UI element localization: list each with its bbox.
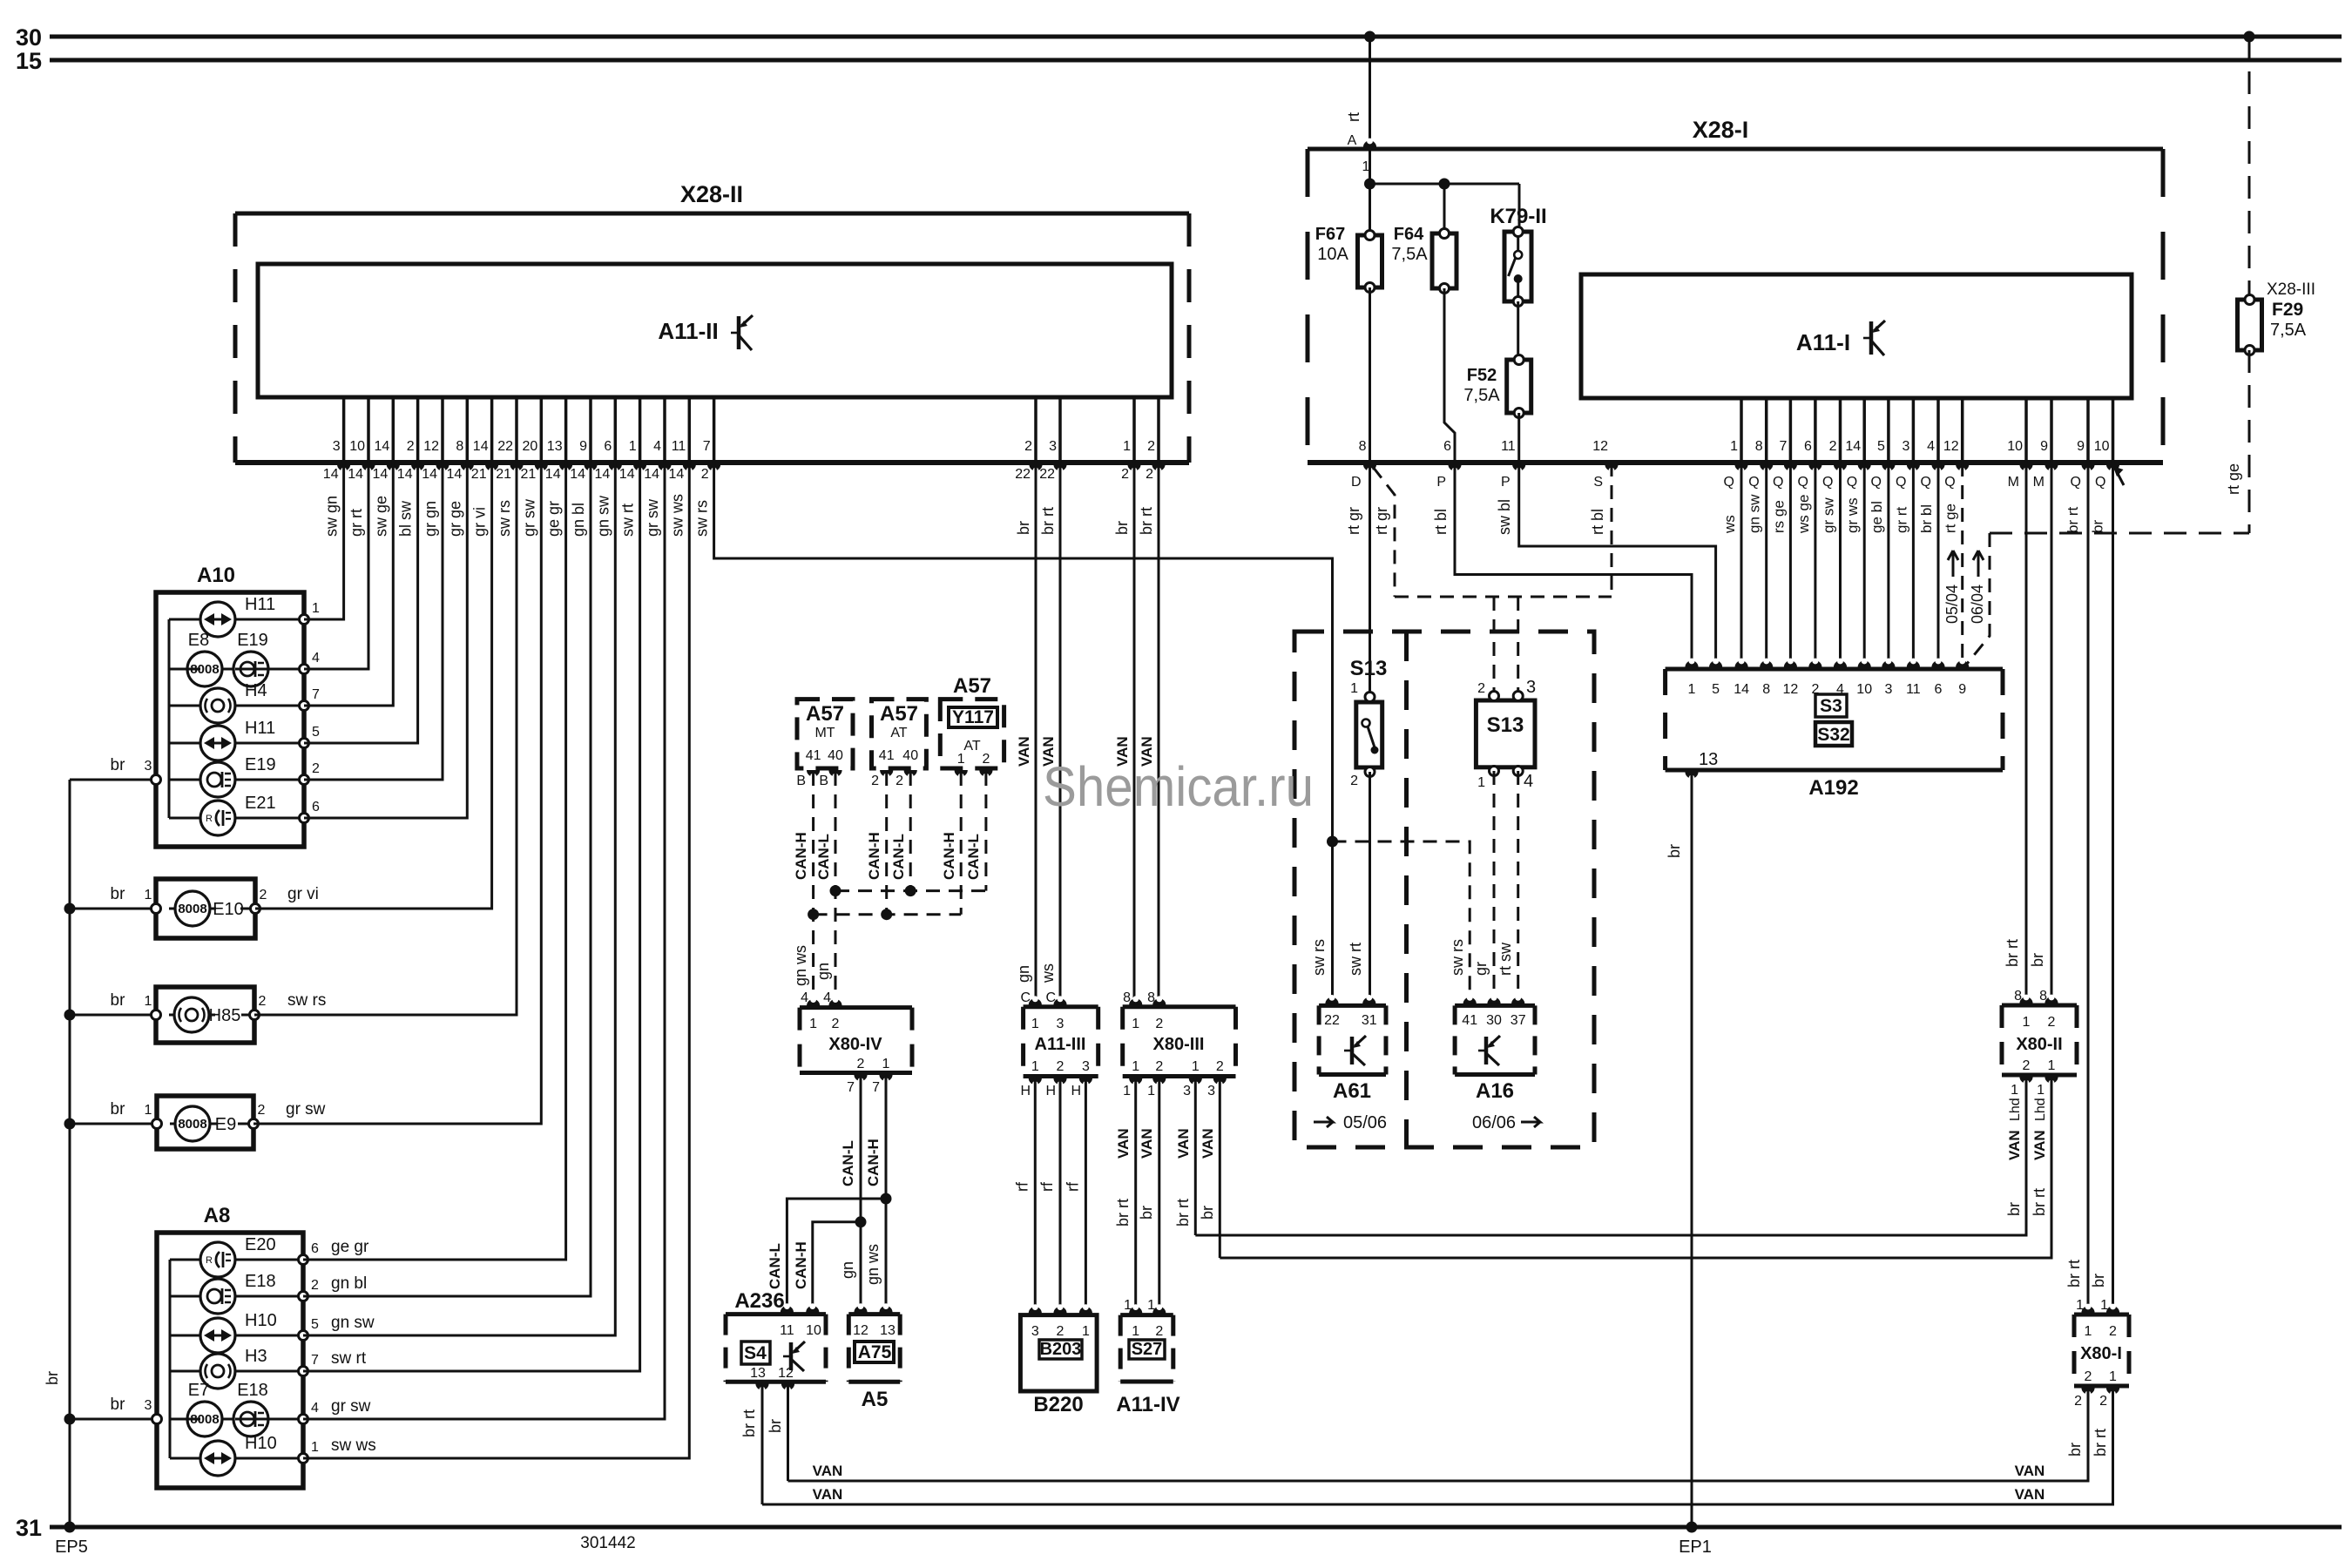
svg-text:br: br bbox=[44, 1371, 61, 1385]
svg-text:A5: A5 bbox=[862, 1388, 889, 1411]
wire F64 to pin 6 bbox=[1444, 288, 1455, 463]
svg-text:A11-III: A11-III bbox=[1035, 1035, 1086, 1054]
svg-text:VAN: VAN bbox=[1016, 736, 1032, 767]
svg-text:3: 3 bbox=[1049, 439, 1057, 454]
svg-text:3: 3 bbox=[145, 1398, 152, 1413]
svg-text:Q: Q bbox=[1870, 475, 1881, 490]
wire bl sw bbox=[304, 463, 418, 743]
pin 11 of A11-II bbox=[688, 397, 692, 463]
svg-text:40: 40 bbox=[902, 748, 918, 763]
svg-text:12: 12 bbox=[853, 1323, 868, 1338]
module A5 bbox=[848, 1312, 900, 1316]
svg-text:br rt: br rt bbox=[1138, 507, 1155, 535]
switch label S32 bbox=[1815, 722, 1852, 746]
pin 3 of A11-II bbox=[342, 397, 346, 463]
svg-text:CAN-L: CAN-L bbox=[890, 834, 907, 880]
wire br rt Q to X80-I bbox=[2087, 463, 2090, 1311]
pin 12/Q of X28-I bbox=[1961, 398, 1964, 463]
svg-text:2: 2 bbox=[871, 774, 879, 788]
wire rt ge F29 down bbox=[2248, 350, 2251, 533]
wire rt ge 06/04 dashed bbox=[1967, 533, 1990, 664]
svg-text:P: P bbox=[1501, 475, 1511, 490]
svg-text:2: 2 bbox=[1024, 439, 1032, 454]
svg-text:2: 2 bbox=[1216, 1059, 1224, 1074]
wire rt ge horizontal bbox=[1990, 532, 2249, 535]
pin 10/M of X28-I bbox=[2024, 398, 2028, 463]
svg-text:C: C bbox=[1045, 990, 1056, 1005]
wire br rt A236 to VAN bbox=[761, 1382, 764, 1504]
wire br rail bbox=[69, 780, 71, 1527]
svg-text:14: 14 bbox=[473, 439, 489, 454]
wire gn ws X80-IV to A5 pin 13 bbox=[885, 1073, 888, 1312]
svg-text:1: 1 bbox=[1123, 439, 1131, 454]
svg-text:2: 2 bbox=[311, 1278, 319, 1293]
svg-text:1: 1 bbox=[1730, 439, 1738, 454]
svg-text:VAN: VAN bbox=[2031, 1130, 2048, 1160]
wire rt sw S13 to A16 bbox=[1517, 771, 1519, 1002]
pin 3 of A192 bbox=[1882, 660, 1895, 667]
svg-text:14: 14 bbox=[397, 467, 413, 482]
wire VAN Lhd 1 bbox=[1195, 1075, 2026, 1235]
svg-text:CAN-L: CAN-L bbox=[767, 1243, 783, 1289]
svg-text:41: 41 bbox=[1462, 1013, 1477, 1028]
wire gr sw bbox=[303, 463, 665, 1419]
svg-text:8: 8 bbox=[1755, 439, 1763, 454]
svg-text:14: 14 bbox=[348, 467, 363, 482]
svg-text:7: 7 bbox=[312, 687, 320, 702]
svg-text:EP1: EP1 bbox=[1679, 1538, 1712, 1557]
svg-text:E21: E21 bbox=[245, 794, 276, 813]
node rail-E9 bbox=[64, 1119, 76, 1130]
svg-text:1: 1 bbox=[2076, 1298, 2084, 1313]
svg-text:S32: S32 bbox=[1817, 725, 1849, 745]
wire br rt to X80-III pin 2 bbox=[1158, 463, 1160, 1002]
svg-text:gr sw: gr sw bbox=[644, 498, 661, 537]
wire br to E9 pin 1 bbox=[70, 1123, 157, 1125]
svg-text:Q: Q bbox=[1944, 475, 1955, 490]
svg-text:12: 12 bbox=[423, 439, 439, 454]
control unit A61 bbox=[1319, 1004, 1386, 1008]
svg-text:31: 31 bbox=[1362, 1013, 1377, 1028]
svg-text:2: 2 bbox=[1121, 467, 1129, 482]
svg-text:H11: H11 bbox=[245, 719, 275, 738]
svg-text:F29: F29 bbox=[2272, 300, 2303, 320]
svg-text:5: 5 bbox=[311, 1317, 319, 1332]
pin 10 of A192 bbox=[1858, 660, 1871, 667]
lamp E10 bbox=[156, 879, 255, 938]
svg-text:Q: Q bbox=[1773, 475, 1783, 490]
svg-text:VAN: VAN bbox=[813, 1463, 843, 1479]
svg-text:E19: E19 bbox=[245, 755, 276, 774]
switch label S3 bbox=[1815, 694, 1847, 717]
svg-text:1: 1 bbox=[145, 994, 152, 1009]
svg-text:Q: Q bbox=[2095, 475, 2105, 490]
svg-text:H: H bbox=[1071, 1084, 1081, 1098]
svg-text:sw rs: sw rs bbox=[496, 500, 513, 537]
wire rf 1 to B203 bbox=[1034, 1077, 1037, 1313]
svg-text:2: 2 bbox=[2074, 1394, 2082, 1409]
svg-text:MT: MT bbox=[814, 726, 835, 740]
svg-text:gr sw: gr sw bbox=[331, 1397, 371, 1416]
svg-text:Y117: Y117 bbox=[952, 707, 994, 727]
svg-text:gr vi: gr vi bbox=[287, 885, 319, 903]
svg-text:gn sw: gn sw bbox=[1747, 494, 1763, 533]
connector A11-III bbox=[1024, 1004, 1098, 1009]
svg-text:br: br bbox=[111, 991, 126, 1010]
lamp H85 bbox=[156, 987, 254, 1043]
wire gr rt bbox=[304, 463, 368, 669]
pin 1 of A192 bbox=[1685, 660, 1698, 667]
wire F67 to pin 8 bbox=[1369, 287, 1371, 463]
svg-text:X80-I: X80-I bbox=[2080, 1344, 2122, 1363]
svg-text:br bl: br bl bbox=[1918, 504, 1935, 533]
svg-text:1: 1 bbox=[957, 752, 965, 767]
wire K79-II to F52 bbox=[1517, 301, 1519, 360]
svg-text:5: 5 bbox=[1712, 682, 1720, 697]
svg-text:rt ge: rt ge bbox=[2225, 463, 2242, 495]
wire F52 to pin 11 bbox=[1517, 413, 1520, 463]
CAN-L bus dashed bbox=[835, 889, 986, 892]
svg-text:br: br bbox=[1015, 521, 1032, 535]
svg-text:1: 1 bbox=[1192, 1059, 1200, 1074]
svg-text:8: 8 bbox=[1359, 439, 1367, 454]
svg-text:CAN-H: CAN-H bbox=[793, 1241, 809, 1289]
svg-text:X80-IV: X80-IV bbox=[828, 1035, 882, 1054]
svg-text:1: 1 bbox=[2085, 1324, 2092, 1339]
svg-text:8: 8 bbox=[1123, 990, 1131, 1005]
svg-text:10: 10 bbox=[2007, 439, 2023, 454]
svg-text:X28-III: X28-III bbox=[2267, 280, 2315, 299]
wire VAN lower 2 bbox=[762, 1386, 2113, 1504]
wire rt gr dashed net bbox=[1373, 467, 1395, 597]
svg-text:11: 11 bbox=[780, 1323, 794, 1338]
node rail-A8 bbox=[64, 1414, 76, 1425]
svg-text:Q: Q bbox=[1896, 475, 1906, 490]
svg-text:3: 3 bbox=[1082, 1059, 1090, 1074]
wire sw rs to A61/A16 net bbox=[714, 463, 1333, 1002]
svg-text:F67: F67 bbox=[1315, 225, 1345, 244]
module A11-I bbox=[1581, 274, 2132, 398]
svg-text:7: 7 bbox=[703, 439, 711, 454]
svg-text:CAN-H: CAN-H bbox=[941, 832, 957, 880]
svg-text:A236: A236 bbox=[734, 1289, 784, 1313]
wire ws ge to A192 bbox=[1814, 463, 1816, 669]
svg-text:2: 2 bbox=[260, 888, 267, 902]
svg-text:8008: 8008 bbox=[190, 662, 219, 677]
svg-text:2: 2 bbox=[407, 439, 415, 454]
svg-text:12: 12 bbox=[1943, 439, 1959, 454]
svg-text:sw rt: sw rt bbox=[619, 504, 637, 537]
svg-text:br: br bbox=[2005, 1202, 2023, 1216]
svg-text:br: br bbox=[1666, 844, 1683, 858]
wire sw gn bbox=[304, 463, 344, 619]
connector X28-II dashed frame bbox=[233, 213, 238, 463]
svg-text:12: 12 bbox=[778, 1366, 794, 1381]
svg-text:7: 7 bbox=[872, 1080, 880, 1095]
svg-text:br rt: br rt bbox=[2065, 507, 2081, 534]
svg-text:1: 1 bbox=[1123, 1084, 1131, 1098]
svg-text:VAN: VAN bbox=[2006, 1130, 2023, 1160]
ground EP1 bbox=[1686, 1522, 1698, 1533]
svg-text:8: 8 bbox=[1762, 682, 1770, 697]
svg-text:12: 12 bbox=[1783, 682, 1799, 697]
CAN-H bus dashed bbox=[814, 913, 962, 916]
pin 14 of A192 bbox=[1735, 660, 1748, 667]
wire gr vi bbox=[255, 463, 492, 909]
svg-text:11: 11 bbox=[672, 439, 686, 454]
svg-text:14: 14 bbox=[323, 467, 339, 482]
svg-text:A11-II: A11-II bbox=[658, 318, 718, 344]
svg-text:X28-I: X28-I bbox=[1693, 117, 1749, 143]
connector X80-IV bbox=[800, 1005, 912, 1010]
svg-text:3: 3 bbox=[1183, 1084, 1191, 1098]
svg-text:1: 1 bbox=[809, 1017, 817, 1031]
svg-text:31: 31 bbox=[16, 1515, 42, 1541]
svg-text:H3: H3 bbox=[245, 1347, 267, 1366]
svg-text:gn bl: gn bl bbox=[570, 503, 587, 537]
wire dashed to S13 pin 2 bbox=[1493, 597, 1496, 691]
lamp E18 in A8 bbox=[170, 1295, 200, 1298]
svg-text:br: br bbox=[111, 1100, 126, 1119]
svg-text:2: 2 bbox=[1155, 1059, 1163, 1074]
svg-text:br: br bbox=[111, 885, 126, 903]
pin 12 of A192 bbox=[1784, 660, 1797, 667]
svg-text:gn ws: gn ws bbox=[864, 1244, 882, 1285]
svg-text:6: 6 bbox=[604, 439, 612, 454]
connector X80-I bbox=[2074, 1313, 2129, 1317]
wire rf 2 to B203 bbox=[1059, 1077, 1062, 1313]
svg-text:br rt: br rt bbox=[1039, 507, 1057, 535]
svg-text:22: 22 bbox=[1039, 467, 1055, 482]
svg-text:sw gn: sw gn bbox=[323, 496, 341, 537]
svg-text:7: 7 bbox=[847, 1080, 855, 1095]
svg-text:2: 2 bbox=[2085, 1369, 2092, 1384]
svg-text:7: 7 bbox=[1779, 439, 1787, 454]
wire gr ws to A192 bbox=[1863, 463, 1866, 669]
svg-text:VAN: VAN bbox=[2015, 1463, 2045, 1479]
node CAN-H tap bbox=[881, 1193, 892, 1205]
svg-text:R: R bbox=[206, 814, 213, 824]
pin 13 of A11-II bbox=[564, 397, 568, 463]
svg-text:8: 8 bbox=[456, 439, 463, 454]
svg-text:br: br bbox=[2090, 520, 2106, 533]
wire br to X80-III pin 1 bbox=[1133, 463, 1136, 1002]
svg-text:1: 1 bbox=[2011, 1083, 2018, 1098]
svg-text:1: 1 bbox=[1147, 1084, 1155, 1098]
svg-text:1: 1 bbox=[1132, 1017, 1139, 1031]
pin 9 of A192 bbox=[1956, 660, 1969, 667]
svg-text:14: 14 bbox=[570, 467, 585, 482]
svg-text:S13: S13 bbox=[1350, 657, 1388, 680]
pin 5 of A192 bbox=[1709, 660, 1722, 667]
svg-text:40: 40 bbox=[828, 748, 843, 763]
wire sw rt S13 to A61 bbox=[1369, 772, 1371, 1002]
pin 4 of A11-II bbox=[663, 397, 666, 463]
wire rt gr to S13 pin 1 bbox=[1369, 463, 1371, 694]
svg-text:B220: B220 bbox=[1033, 1393, 1083, 1416]
svg-text:1: 1 bbox=[145, 1103, 152, 1118]
svg-text:CAN-H: CAN-H bbox=[866, 832, 882, 880]
svg-text:A57: A57 bbox=[806, 702, 844, 726]
pin 8 of A192 bbox=[1760, 660, 1773, 667]
svg-text:H: H bbox=[1020, 1084, 1031, 1098]
svg-text:2: 2 bbox=[2048, 1015, 2056, 1030]
svg-text:8: 8 bbox=[1147, 990, 1155, 1005]
svg-text:Shemicar.ru: Shemicar.ru bbox=[1043, 755, 1314, 818]
svg-text:8008: 8008 bbox=[190, 1412, 219, 1427]
node fuse branch 1 bbox=[1364, 179, 1375, 190]
wire CAN-L from A236 pin 11 bbox=[787, 1199, 886, 1311]
svg-text:2: 2 bbox=[1155, 1017, 1163, 1031]
svg-text:A11-IV: A11-IV bbox=[1116, 1393, 1179, 1416]
pin 14/Q of X28-I bbox=[1862, 398, 1866, 463]
bus 31 bbox=[50, 1525, 2342, 1530]
svg-text:gn: gn bbox=[1015, 965, 1032, 983]
svg-text:7,5A: 7,5A bbox=[1463, 386, 1500, 405]
wire gr S13 to A16 bbox=[1493, 771, 1496, 1002]
svg-text:gr ws: gr ws bbox=[1844, 497, 1861, 533]
pin 1 of A11-II (right) bbox=[1132, 397, 1136, 463]
wire CAN-H from A236 pin 10 bbox=[813, 1222, 861, 1311]
svg-text:X80-III: X80-III bbox=[1153, 1035, 1205, 1054]
svg-text:2: 2 bbox=[857, 1057, 865, 1071]
svg-text:rt sw: rt sw bbox=[1497, 942, 1514, 976]
svg-text:gn ws: gn ws bbox=[792, 945, 809, 986]
svg-text:M: M bbox=[2033, 475, 2044, 490]
svg-text:1: 1 bbox=[145, 888, 152, 902]
wire to fuses bbox=[1369, 149, 1371, 235]
wire sw ws bbox=[303, 463, 689, 1458]
ground EP5 bbox=[64, 1522, 76, 1533]
svg-text:ws: ws bbox=[1721, 515, 1738, 534]
svg-text:F64: F64 bbox=[1394, 225, 1424, 244]
instrument module A11-II bbox=[258, 264, 1172, 397]
svg-text:E10: E10 bbox=[213, 900, 244, 919]
svg-text:7,5A: 7,5A bbox=[2270, 321, 2307, 340]
bus 15 bbox=[50, 58, 2342, 63]
svg-text:H10: H10 bbox=[245, 1434, 277, 1453]
wire ws to A192 bbox=[1740, 463, 1743, 669]
pin 2/Q of X28-I bbox=[1839, 398, 1842, 463]
svg-text:S13: S13 bbox=[1487, 713, 1524, 737]
svg-text:1: 1 bbox=[1688, 682, 1696, 697]
svg-text:A10: A10 bbox=[197, 564, 235, 587]
svg-text:1: 1 bbox=[629, 439, 637, 454]
node rail-H85 bbox=[64, 1010, 76, 1021]
svg-text:2: 2 bbox=[1829, 439, 1837, 454]
svg-text:br rt: br rt bbox=[2092, 1429, 2109, 1456]
wire br bl to A192 bbox=[1937, 463, 1940, 669]
lamp E19 in A10 bbox=[169, 779, 200, 781]
wire rt bl dashed from pin S bbox=[1611, 463, 1613, 597]
wire br to H85 pin 1 bbox=[70, 1014, 156, 1017]
svg-text:gn sw: gn sw bbox=[331, 1314, 375, 1332]
svg-text:6: 6 bbox=[312, 800, 320, 814]
svg-text:gr rt: gr rt bbox=[348, 509, 365, 537]
pin 3 of A11-II (right) bbox=[1058, 397, 1062, 463]
lamp H10 in A8 bbox=[170, 1457, 200, 1460]
svg-text:13: 13 bbox=[1699, 750, 1718, 769]
svg-text:2: 2 bbox=[1477, 681, 1485, 696]
wire br to A8 pin 3 bbox=[70, 1418, 157, 1421]
node fuse branch 2 bbox=[1439, 179, 1450, 190]
svg-text:A8: A8 bbox=[204, 1204, 231, 1227]
wire VAN to S27 pin 1 bbox=[1134, 1077, 1137, 1313]
svg-text:11: 11 bbox=[1906, 682, 1921, 697]
svg-text:A192: A192 bbox=[1808, 776, 1858, 800]
svg-text:Q: Q bbox=[1797, 475, 1808, 490]
svg-text:br rt: br rt bbox=[2065, 1260, 2083, 1288]
wire rt to F29 bbox=[2248, 37, 2251, 300]
svg-text:41: 41 bbox=[879, 748, 895, 763]
pin 13 of A192 bbox=[1685, 772, 1698, 779]
svg-text:7,5A: 7,5A bbox=[1391, 245, 1428, 264]
svg-text:AT: AT bbox=[890, 726, 907, 740]
svg-text:br: br bbox=[1199, 1206, 1216, 1220]
svg-text:rt gr: rt gr bbox=[1373, 507, 1390, 535]
svg-text:22: 22 bbox=[497, 439, 513, 454]
svg-text:301442: 301442 bbox=[580, 1534, 635, 1552]
svg-text:3: 3 bbox=[1207, 1084, 1215, 1098]
lamp E8E19 in A10 bbox=[169, 668, 200, 671]
svg-text:M: M bbox=[2008, 475, 2019, 490]
svg-text:1: 1 bbox=[1477, 775, 1485, 790]
svg-text:4: 4 bbox=[801, 990, 808, 1005]
wire rt from bus 30 bbox=[1369, 37, 1371, 149]
svg-text:2: 2 bbox=[259, 994, 267, 1009]
svg-text:14: 14 bbox=[669, 467, 685, 482]
pin 4/Q of X28-I bbox=[1936, 398, 1940, 463]
svg-text:sw rt: sw rt bbox=[331, 1349, 367, 1368]
wire VAN to X80-II pin 2 bbox=[1194, 1077, 1197, 1236]
sensor B203 (B220) bbox=[1020, 1315, 1097, 1391]
pin 4 of A192 bbox=[1834, 660, 1847, 667]
svg-text:22: 22 bbox=[1015, 467, 1031, 482]
svg-text:rt bl: rt bl bbox=[1589, 509, 1606, 535]
svg-text:sw ws: sw ws bbox=[331, 1436, 376, 1455]
node CAN-L tap bbox=[855, 1216, 867, 1227]
svg-text:gr: gr bbox=[1472, 962, 1490, 976]
svg-text:2: 2 bbox=[701, 467, 709, 482]
pin 2 of A11-II (right) bbox=[1034, 397, 1037, 463]
wire rt bl from pin 6 to A192 pin 1 bbox=[1455, 463, 1692, 669]
svg-text:6: 6 bbox=[1935, 682, 1943, 697]
svg-text:X80-II: X80-II bbox=[2016, 1035, 2062, 1054]
svg-text:14: 14 bbox=[1734, 682, 1749, 697]
svg-text:Lhd: Lhd bbox=[2008, 1098, 2023, 1121]
wire br Q to X80-I bbox=[2112, 463, 2114, 1311]
svg-text:3: 3 bbox=[333, 439, 341, 454]
svg-text:4: 4 bbox=[1927, 439, 1935, 454]
svg-text:gr ge: gr ge bbox=[446, 501, 463, 537]
svg-text:A57: A57 bbox=[953, 674, 991, 698]
svg-text:ws ge: ws ge bbox=[1795, 495, 1812, 534]
svg-text:E8: E8 bbox=[188, 631, 209, 650]
svg-text:4: 4 bbox=[312, 651, 320, 666]
arrow at pin 10/Q bbox=[2114, 467, 2124, 485]
svg-text:Q: Q bbox=[1822, 475, 1833, 490]
wire gr sw bbox=[253, 463, 541, 1124]
svg-text:A61: A61 bbox=[1333, 1079, 1371, 1103]
svg-text:X28-II: X28-II bbox=[680, 181, 743, 207]
svg-text:15: 15 bbox=[16, 48, 42, 74]
svg-text:E18: E18 bbox=[237, 1381, 268, 1400]
pin 14 of A11-II bbox=[392, 397, 395, 463]
svg-text:gn: gn bbox=[814, 963, 832, 980]
pin 2 of A11-II bbox=[416, 397, 420, 463]
svg-text:F52: F52 bbox=[1467, 366, 1497, 385]
wire VAN to S27 pin 2 bbox=[1158, 1077, 1160, 1313]
